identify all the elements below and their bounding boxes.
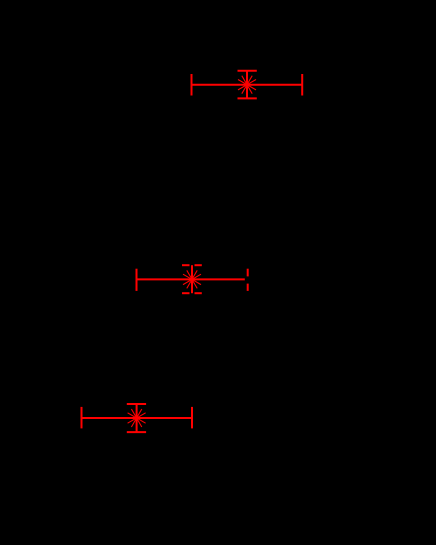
data point 2: horizontal error bar: [137, 269, 248, 291]
data point 2: star marker: [182, 269, 203, 290]
data point 1: star marker: [237, 74, 258, 95]
data point 2: vertical error bar: [182, 265, 202, 293]
data point 1: vertical error bar: [238, 71, 257, 99]
data point 3: vertical error bar: [127, 404, 146, 432]
data point 3: horizontal error bar: [82, 407, 193, 429]
data point 1: horizontal error bar: [192, 74, 303, 96]
data point 3: star marker: [126, 408, 147, 429]
